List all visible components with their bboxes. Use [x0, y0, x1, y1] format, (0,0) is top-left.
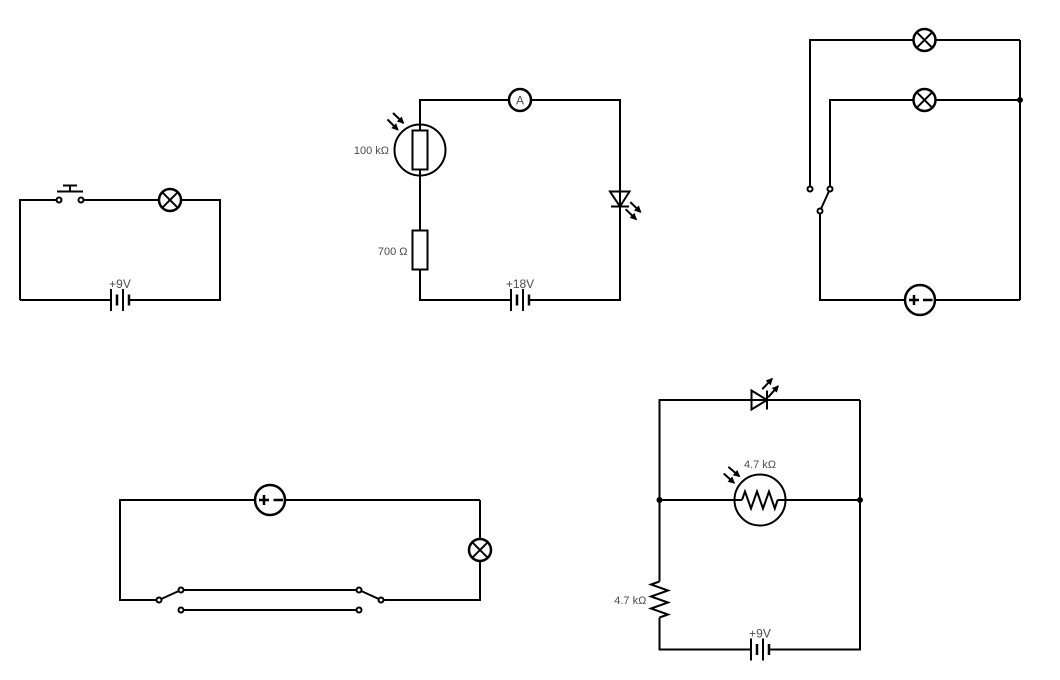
- switch S4 lever: [359, 590, 381, 600]
- svg-text:A: A: [516, 94, 524, 108]
- LDR R1 body: [413, 131, 428, 170]
- wire through LDR: [419, 124, 421, 176]
- battery B2 plates: [511, 289, 529, 311]
- lamp L1: [159, 189, 181, 211]
- push button S1 stem: [69, 186, 71, 192]
- wire left+top-left (battery minus to switch): [20, 200, 56, 300]
- wire stub right inside LDR: [778, 499, 788, 501]
- switch S2 left throw terminal: [808, 187, 813, 192]
- wire top-right+right+bottom-right (switch to lamp to battery): [84, 200, 220, 300]
- switch S4 lower throw terminal: [357, 608, 362, 613]
- svg-text:4.7 kΩ: 4.7 kΩ: [744, 459, 776, 471]
- wire upper link: [184, 589, 356, 591]
- wire right + bottom-right: [770, 400, 860, 650]
- LED D2 light arrow upper: [762, 379, 772, 390]
- resistor R2 body: [413, 231, 428, 270]
- wire left + top (through source V2): [120, 500, 480, 600]
- svg-text:+18V: +18V: [506, 277, 534, 291]
- lamp L2: [914, 29, 936, 51]
- LDR R3 envelope circle: [735, 475, 786, 526]
- junction node: [1017, 97, 1023, 103]
- wire lower link: [184, 609, 356, 611]
- light arrow into LDR lower: [388, 120, 398, 130]
- wire bottom-left + left lower: [660, 618, 751, 650]
- wire left upper + top (through LED D2): [660, 400, 861, 582]
- lamp L3: [914, 89, 936, 111]
- switch S3 lower throw terminal: [179, 608, 184, 613]
- junction node left: [657, 497, 663, 503]
- LED D2 light arrow lower: [768, 386, 778, 397]
- wire right side: [1019, 40, 1021, 300]
- LED D1 light arrow lower: [626, 209, 637, 219]
- source V2: [255, 485, 285, 515]
- wire main loop: [420, 100, 620, 300]
- wire inner-left + second row (through lamp L3): [830, 100, 1020, 186]
- switch S3 lever: [159, 590, 181, 600]
- LED D1 light arrow upper: [630, 202, 640, 212]
- switch S2 pole terminal: [818, 209, 823, 214]
- switch S2 right throw terminal: [828, 187, 833, 192]
- wire stub left inside LDR: [733, 499, 742, 501]
- battery B1 plates: [111, 289, 129, 311]
- svg-text:700 Ω: 700 Ω: [378, 246, 408, 258]
- LED D2 cathode bar: [766, 391, 768, 410]
- push button S1 right contact: [79, 198, 84, 203]
- light arrow into LDR upper: [728, 467, 739, 477]
- wire middle row: [660, 499, 861, 501]
- junction node right: [857, 497, 863, 503]
- wire right (through lamp L4): [384, 500, 480, 600]
- wire bottom + switch pole riser: [820, 214, 1020, 300]
- svg-text:100 kΩ: 100 kΩ: [354, 145, 389, 157]
- push button S1 left contact: [57, 198, 62, 203]
- battery B3 plates: [751, 639, 769, 661]
- svg-text:4.7 kΩ: 4.7 kΩ: [614, 595, 646, 607]
- LDR R3 zigzag element: [742, 492, 778, 509]
- switch S3 pole terminal: [157, 598, 162, 603]
- wire bottom-left: [20, 299, 110, 301]
- push button S1 top cap: [63, 185, 77, 187]
- svg-text:+9V: +9V: [749, 627, 771, 641]
- LDR R1 envelope circle: [395, 125, 446, 176]
- switch S3 upper throw terminal: [179, 588, 184, 593]
- switch S4 upper throw terminal: [357, 588, 362, 593]
- LED D1 triangle: [610, 192, 630, 207]
- light arrow into LDR lower: [724, 474, 735, 484]
- switch S4 pole terminal: [379, 598, 384, 603]
- switch S2 lever: [820, 189, 830, 211]
- push button S1 actuator bar: [57, 191, 83, 193]
- wire outer-left + top (through lamp L2): [810, 40, 1020, 186]
- source V1: [905, 285, 935, 315]
- ammeter A1: [509, 89, 531, 111]
- light arrow into LDR upper: [393, 113, 403, 123]
- resistor R4 zigzag: [651, 582, 668, 618]
- svg-text:+9V: +9V: [109, 277, 131, 291]
- lamp L4: [469, 539, 491, 561]
- LED D1 cathode bar: [611, 206, 629, 208]
- LED D2 triangle: [752, 391, 768, 410]
